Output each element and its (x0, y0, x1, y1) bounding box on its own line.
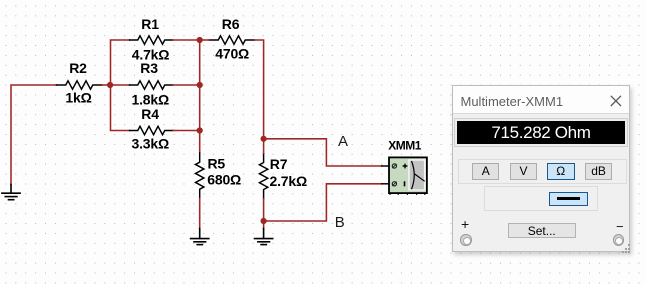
minus terminal label (616, 219, 624, 234)
resistor R4 (horizontal, 3.3k) (130, 126, 173, 134)
label R4 (141, 106, 159, 122)
group box: measurement type (458, 159, 627, 184)
svg-text:R2: R2 (69, 60, 87, 76)
wire: node B to multimeter - terminal (264, 184, 382, 221)
title bar (453, 86, 629, 114)
svg-text:XMM1: XMM1 (388, 139, 421, 153)
button A (472, 163, 499, 180)
svg-text:470Ω: 470Ω (215, 45, 249, 61)
value 3.3kΩ (132, 135, 169, 151)
pin + terminal circle of XMM1 (392, 164, 396, 168)
svg-text:R4: R4 (141, 106, 159, 122)
node A label (338, 133, 348, 150)
wire: left vertical bus joining R1,R3,R4 left pins (111, 40, 130, 131)
junction node B (R7/ground/- wire) (261, 218, 267, 224)
ground (below R5) (191, 229, 209, 245)
resistor R2 (horizontal, 1k) (57, 81, 103, 89)
svg-text:R1: R1 (141, 16, 159, 32)
multimeter instrument window Multimeter-XMM1 (452, 85, 630, 252)
wire: R4 right lead to right bus (173, 130, 200, 132)
minus terminal jack (613, 234, 625, 246)
label R1 (141, 16, 159, 32)
resistor R3 (horizontal, 1.8k) (130, 81, 173, 89)
value 470Ω (215, 45, 249, 61)
svg-text:1.8kΩ: 1.8kΩ (132, 91, 169, 107)
multimeter U1 XMM1 instrument icon (389, 157, 427, 195)
wire: R3 right lead to right bus (173, 84, 200, 86)
ground (below R7) (255, 229, 273, 245)
wire: right vertical bus down to R5 (199, 40, 201, 153)
close button (610, 95, 622, 107)
wire: R7 top lead (263, 139, 265, 154)
junction node A (R6/R7/+ wire) (261, 136, 267, 142)
wire: XMM1 - pin lead (black) (382, 183, 393, 185)
svg-text:R6: R6 (222, 16, 240, 32)
wire: R1 right lead to right bus (173, 39, 200, 41)
svg-text:A: A (338, 133, 348, 150)
button Ohm (selected) (547, 163, 575, 180)
label R3 (140, 60, 158, 76)
wire: right bus to R6 left lead (200, 39, 209, 41)
value 1.8kΩ (132, 91, 169, 107)
resistor R7 (vertical, 2.7k) (259, 153, 267, 198)
value 4.7kΩ (132, 46, 169, 62)
ground (left, at x=11) (2, 185, 20, 200)
label R6 (222, 16, 240, 32)
svg-text:1kΩ: 1kΩ (65, 89, 91, 105)
Set... button (508, 223, 576, 239)
wire: R6 right lead down to node A junction (255, 40, 264, 139)
label XMM1 (388, 139, 421, 153)
value 2.7kΩ (270, 173, 307, 189)
wire: R2 right lead to left bus (102, 84, 111, 86)
svg-text:2.7kΩ: 2.7kΩ (270, 173, 307, 189)
resistor R5 (vertical, 680) (196, 153, 204, 198)
svg-text:3.3kΩ: 3.3kΩ (132, 135, 169, 151)
display readout 715.282 Ohm (454, 118, 628, 147)
wire: left net from R2 left lead to ground (11, 85, 57, 185)
wire: node B junction down to ground (263, 221, 265, 229)
button DC (selected) (549, 192, 588, 206)
label R5 (208, 156, 226, 172)
junction node at R3/right bus (197, 82, 203, 88)
button dB (585, 163, 612, 180)
svg-text:680Ω: 680Ω (207, 172, 241, 188)
wire: XMM1 + pin lead (black) (382, 165, 393, 167)
pin - terminal circle of XMM1 (392, 182, 396, 186)
plus terminal jack (460, 234, 472, 246)
DC dash symbol (557, 197, 580, 200)
wire: R7 bottom lead to node B junction (263, 199, 265, 221)
svg-text:R7: R7 (270, 156, 288, 172)
value 680Ω (207, 172, 241, 188)
label R2 (69, 60, 87, 76)
wire: node A to multimeter + terminal (264, 139, 382, 166)
node B label (335, 214, 345, 231)
plus terminal label (461, 216, 469, 232)
junction node at R2/left bus (107, 82, 113, 88)
wire: R5 bottom lead to ground (199, 198, 201, 228)
svg-text:R3: R3 (140, 60, 158, 76)
svg-text:B: B (335, 214, 345, 231)
value 1kΩ (65, 89, 91, 105)
button V (510, 163, 537, 180)
resistor R1 (horizontal, 4.7k) (130, 36, 173, 44)
junction node at R1/R6 (197, 37, 203, 43)
resistor R6 (horizontal, 470) (209, 36, 255, 44)
label R7 (270, 156, 288, 172)
resize grip (628, 244, 630, 246)
svg-text:R5: R5 (208, 156, 226, 172)
group box: signal mode (484, 186, 598, 211)
junction node at R4/right bus (197, 127, 203, 133)
